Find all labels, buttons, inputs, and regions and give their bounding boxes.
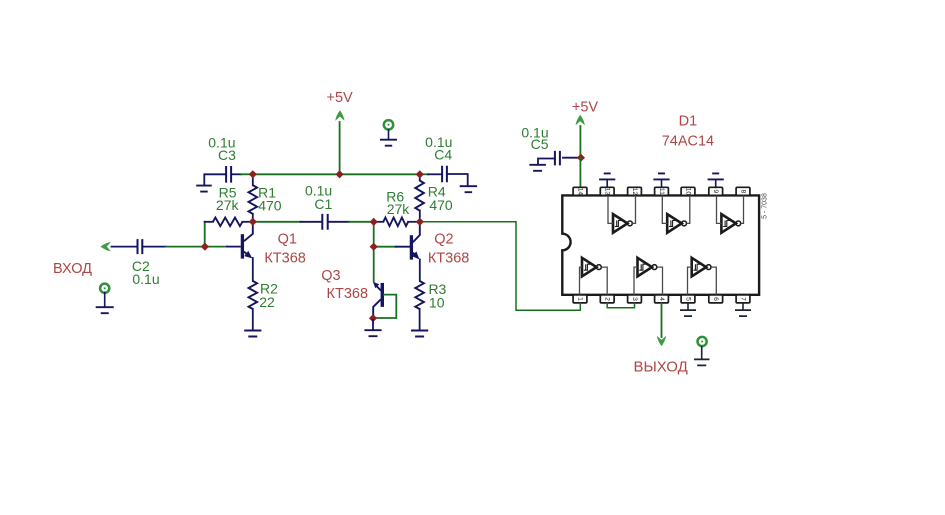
- pin 11 box: [655, 187, 669, 195]
- wire +5V to pin 14: [579, 158, 581, 188]
- wire Q2 base node down to Q3: [373, 247, 375, 282]
- capacitor C4: [442, 166, 447, 183]
- pin 4 box: [655, 295, 669, 303]
- capacitor C5: [563, 157, 578, 159]
- ground below Q3: [364, 330, 381, 336]
- ground above input pin: [606, 179, 608, 187]
- svg-text:27k: 27k: [387, 201, 411, 217]
- wire Q3 base loop: [376, 295, 396, 318]
- wire gate output to pin: [687, 195, 690, 223]
- junction C1-R6 node: [370, 218, 378, 226]
- ground below C3 left: [196, 186, 212, 192]
- wire input pin to gate: [608, 195, 613, 223]
- gate U1C top inverter 3: [721, 214, 736, 233]
- wire base node to Q1 base: [205, 246, 227, 248]
- svg-text:6: 6: [712, 297, 719, 301]
- svg-text:9: 9: [712, 190, 719, 194]
- wire C2 lead right: [142, 246, 166, 248]
- capacitor C3: [226, 166, 231, 183]
- junction input base node: [201, 243, 209, 251]
- capacitor C1: [322, 214, 327, 230]
- svg-text:10: 10: [429, 295, 445, 311]
- svg-text:1: 1: [577, 297, 584, 301]
- ground right of C4: [460, 186, 477, 192]
- wire input pin to gate: [580, 267, 583, 295]
- svg-text:74AC14: 74AC14: [662, 133, 714, 149]
- svg-text:КТ368: КТ368: [264, 251, 306, 267]
- resistor R1: [252, 174, 254, 185]
- resistor R6: [374, 221, 384, 223]
- svg-text:C5: C5: [531, 136, 549, 152]
- pin 2 box: [600, 295, 614, 303]
- svg-text:470: 470: [429, 197, 453, 213]
- pin 5 box: [681, 295, 695, 303]
- wire input pin to gate: [717, 195, 722, 223]
- svg-text:ВЫХОД: ВЫХОД: [633, 359, 687, 376]
- pin 14 box: [573, 187, 587, 195]
- wire C1 to R6 node: [329, 221, 349, 223]
- svg-text:2: 2: [604, 297, 611, 301]
- svg-text:5 - 7038: 5 - 7038: [761, 193, 768, 219]
- power +5V right arrow: [579, 126, 581, 158]
- node VIN arrow: [100, 242, 111, 251]
- wire gate output to pin: [741, 195, 744, 223]
- wire gate output to pin: [711, 267, 716, 295]
- svg-text:5: 5: [685, 297, 692, 301]
- svg-text:8: 8: [740, 190, 747, 194]
- ground terminal top middle: [384, 120, 393, 129]
- junction R6-R4-Q2 collector node: [416, 218, 424, 226]
- junction +5V rail node: [336, 170, 344, 178]
- wire pin 2 to pin 3: [607, 303, 634, 308]
- svg-text:14: 14: [577, 188, 584, 196]
- ground below R3: [411, 331, 428, 337]
- IC D1 74AC14 body with notch: [562, 195, 759, 294]
- wire input pin to gate: [662, 195, 667, 223]
- svg-text:13: 13: [604, 188, 611, 196]
- wire input pin to gate: [634, 267, 638, 295]
- svg-text:+5V: +5V: [326, 90, 353, 106]
- transistor Q3: [381, 283, 384, 307]
- wire top rail Q1 to +5V to Q2: [253, 173, 420, 175]
- wire C3 to rail junction: [232, 173, 241, 175]
- ground terminal right of output: [698, 337, 707, 346]
- svg-text:ВХОД: ВХОД: [53, 261, 92, 277]
- svg-text:Q1: Q1: [278, 232, 297, 248]
- svg-text:КТ368: КТ368: [428, 250, 470, 266]
- resistor R2: [249, 281, 258, 309]
- wire Q1 collector node to C1: [253, 221, 301, 223]
- capacitor C2: [138, 239, 143, 254]
- wire C4 to ground right: [447, 174, 468, 186]
- ground left of C5: [529, 165, 546, 171]
- transistor Q1: [241, 234, 244, 258]
- svg-text:4: 4: [658, 297, 665, 301]
- svg-text:D1: D1: [679, 113, 698, 129]
- svg-text:22: 22: [259, 294, 275, 310]
- wire gate output to pin: [657, 267, 663, 295]
- pin 12 box: [628, 187, 642, 195]
- wire rail left end + C3 ground stub: [204, 174, 226, 185]
- wire gate output to pin: [601, 267, 607, 295]
- wire rail to C4: [420, 173, 428, 175]
- gate U1B top inverter 2: [667, 214, 682, 233]
- resistor R4: [419, 174, 421, 180]
- junction Q2 base Q3 node: [370, 243, 378, 251]
- pin 3 box: [628, 295, 642, 303]
- wire input to C2: [112, 246, 138, 248]
- pin 6 box: [709, 295, 723, 303]
- pin 9 box: [709, 187, 723, 195]
- svg-text:Q3: Q3: [321, 268, 340, 284]
- ground terminal below input: [100, 284, 109, 293]
- wire base node vertical to R5: [204, 222, 206, 247]
- power +5V left arrow: [339, 122, 341, 174]
- svg-text:10: 10: [685, 188, 692, 196]
- svg-text:11: 11: [658, 188, 665, 195]
- transistor Q2: [410, 235, 413, 259]
- resistor R3: [415, 281, 424, 309]
- wire C1 node down to Q2 base node: [373, 222, 375, 247]
- resistor R5: [205, 221, 213, 223]
- svg-text:C3: C3: [218, 147, 236, 163]
- svg-text:+5V: +5V: [572, 100, 599, 116]
- gate U1D bottom inverter 4: [582, 258, 597, 277]
- svg-text:КТ368: КТ368: [327, 286, 369, 302]
- wire C2 to base node: [166, 246, 205, 248]
- svg-text:C1: C1: [314, 196, 332, 212]
- svg-text:12: 12: [631, 188, 638, 196]
- gate U1E bottom inverter 5: [638, 258, 653, 277]
- wire input pin to gate: [688, 267, 692, 295]
- pin 1 box: [573, 295, 587, 303]
- wire base node to Q2 base: [374, 246, 396, 248]
- pin 10 box: [681, 187, 695, 195]
- svg-text:C4: C4: [434, 147, 452, 163]
- svg-text:470: 470: [258, 197, 282, 213]
- ground above input pin: [715, 179, 717, 187]
- wire pin 4 output: [661, 303, 663, 337]
- junction Q1 collector node: [249, 218, 257, 226]
- pin 8 box: [736, 187, 750, 195]
- gate U1F bottom inverter 6: [692, 258, 707, 277]
- junction R4-C4 rail node: [416, 170, 424, 178]
- junction C3-R1 rail node: [249, 170, 257, 178]
- pin 13 box: [600, 187, 614, 195]
- junction Q3 ground node: [369, 314, 377, 322]
- svg-text:3: 3: [631, 297, 638, 301]
- ground above input pin: [661, 179, 663, 187]
- svg-text:27k: 27k: [216, 197, 240, 213]
- junction +5V C5 node: [577, 154, 585, 162]
- pin 7 box: [736, 295, 750, 303]
- gate U1A top inverter 1: [613, 214, 628, 233]
- wire gate output to pin: [632, 195, 635, 223]
- ground below R2: [244, 331, 261, 337]
- ground below pin: [742, 303, 744, 310]
- ground below pin: [687, 303, 689, 310]
- svg-text:7: 7: [740, 297, 747, 301]
- svg-text:0.1u: 0.1u: [132, 271, 159, 287]
- wire Q2 collector to pin 1: [420, 222, 581, 310]
- svg-text:Q2: Q2: [434, 231, 453, 247]
